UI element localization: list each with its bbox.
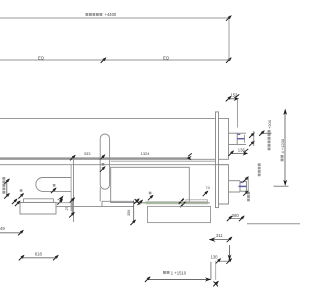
tank end flange [216,112,219,208]
smudge above capsule tick [102,163,105,166]
dim 449 line [0,232,21,234]
svg-text:280: 280 [232,213,240,218]
lower nozzle flange box [240,181,246,191]
dim 152 extension [237,99,239,128]
arrow up [283,109,287,116]
lip rect on green line [186,200,208,203]
pump pedestal [24,199,54,203]
svg-text:EQ: EQ [38,55,45,60]
tank top line [0,117,216,119]
tick X at top of 356 dim [134,198,140,204]
tank end cap upper [219,118,229,159]
dimension line: chiller level +4400 [0,17,229,19]
tick on pump capsule [51,187,57,193]
upper nozzle pipe [229,133,247,144]
lower nozzle ticks [243,176,249,182]
svg-text:311: 311 [216,233,223,238]
rotated label 冷水機出水高度 +200 [268,130,271,150]
rotated smudge label below nozzle [247,192,250,202]
svg-text:EQ: EQ [163,55,170,60]
tank bottom line [0,158,216,160]
tick at top of extension [226,15,232,21]
smudge near pump left [20,189,23,192]
tick crossing capsule [100,166,106,172]
channel lines bottom middle [102,200,134,202]
tick at green line left [137,200,143,206]
label 冷水機高度 +4400 [86,13,103,16]
green pipe line [140,202,210,204]
dim 152 line [228,98,239,100]
arrow on green line [179,199,184,204]
rotated smudge label above nozzle [258,163,261,176]
vertical pipe capsule [100,134,109,189]
svg-text:+200: +200 [267,119,272,129]
svg-text:618: 618 [35,252,43,257]
tick cluster right of pump base [57,199,63,205]
inner line under tank bottom [111,160,216,162]
dim 280 line [229,218,242,220]
svg-text:333: 333 [84,151,91,156]
dimension line EQ-EQ [0,59,229,61]
level tick line y=133 [261,132,272,134]
tick on EQ line right end [226,57,232,63]
extension line right x=229 [228,18,230,60]
smudge 51 above green [149,192,152,195]
pump base block [20,202,56,214]
tick above green middle [148,195,154,201]
pump capsule [36,178,71,192]
pump pipe riser right [73,159,75,222]
big box frame [111,167,190,202]
leader arrow near pump base right [57,195,64,201]
lower nozzle blue dash [241,182,244,184]
svg-text:74: 74 [206,186,210,190]
tick cluster left of pump base [12,198,18,204]
pill left leg extension [99,188,101,202]
dimension line 333/1324 [0,157,191,159]
tick on level line [259,130,265,136]
svg-text:1324: 1324 [141,151,151,156]
dim 136 line [231,152,248,154]
lower shell right end [219,165,229,204]
svg-text:1 +1510: 1 +1510 [171,270,187,275]
base line of tall dimension [274,185,289,187]
connector line of nozzle ticks [253,131,255,146]
extension line for floor dim [210,262,212,280]
lower nozzle blue centerline [239,185,247,187]
tick on EQ line middle [101,57,107,63]
svg-text:+4400: +4400 [105,12,117,17]
lower nozzle pipe [229,181,241,192]
left vertical dimension 高度3 +725 [6,181,8,197]
dim 618 line [21,257,56,259]
svg-text:356: 356 [127,210,131,216]
pump pipe riser left [70,165,72,211]
upper nozzle ticks right [249,132,255,138]
svg-text:136: 136 [238,148,246,153]
upper nozzle blue centerline [237,138,244,140]
short vertical with down arrow [229,245,231,258]
upper nozzle blue dash top [238,133,241,135]
tall dimension line right [284,112,286,185]
dim 311 line [210,239,231,241]
smudge 51 on pump [53,184,56,187]
tick near 74 [203,191,209,197]
tick at x=102.5 [100,154,106,160]
svg-text:49: 49 [0,226,5,231]
svg-text:130: 130 [211,255,219,260]
tick at x=72.5 [70,155,76,161]
connector line of lower nozzle ticks [247,178,249,194]
vertical dim 25 at pump right [71,199,73,215]
svg-text:4 +1200: 4 +1200 [280,138,285,153]
vertical dim 356 [133,201,135,223]
label 高度1 +1510 [163,271,170,274]
thin pipe outline around green line [146,202,208,204]
bottom box [148,206,211,222]
upper nozzle right flange line [244,135,246,143]
dim 130 line [218,260,230,262]
filled arrow left-pointing at x=187 [186,156,191,160]
floor dimension line 高度1 +1510 [147,278,211,280]
rotated label 高度3 +725 [2,177,5,194]
faint floor lines right [247,223,300,225]
rotated label 高度4 +1200 [281,155,284,161]
arrow down [283,180,287,186]
lower shell top line [0,164,229,166]
